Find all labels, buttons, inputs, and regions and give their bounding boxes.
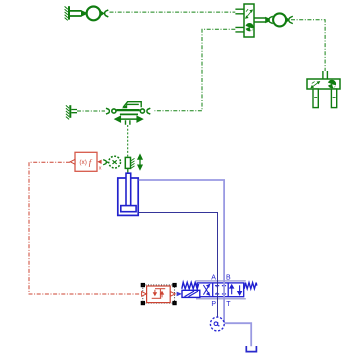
sensor stub to rod (127, 168, 129, 173)
claw right of engine (105, 10, 109, 17)
pump U1 variable arrow icon (246, 9, 253, 18)
cylinder piston (121, 206, 136, 212)
valve V1 right cell straight arrows (230, 285, 242, 295)
pump U2 body (307, 79, 340, 89)
pump U2 leg ticks (314, 97, 335, 99)
coupling funnel left of inertia J1 (265, 17, 270, 23)
coupling wedge right of engine (101, 11, 105, 17)
swashplate main bar (116, 109, 139, 111)
valve V1 body boxes (197, 283, 244, 297)
position sensor circle with x (109, 156, 121, 168)
flow gauge circle (210, 317, 224, 331)
pump U2 globe icon (328, 80, 336, 88)
swashplate flag wedge (122, 105, 128, 109)
sensor hatch marks (131, 158, 135, 168)
f(x) left output port arrow (70, 159, 75, 164)
valve V1 left spring (182, 282, 199, 288)
swashplate control SP left claw (106, 108, 109, 114)
position sensor claw (103, 160, 108, 165)
valve V1 proportional solenoid (182, 290, 200, 297)
fixed support W2 stub (71, 110, 77, 113)
swashplate right claw (147, 108, 150, 114)
pump U2 left leg (313, 89, 318, 108)
svg-text:T: T (226, 301, 231, 308)
swashplate flag (123, 102, 141, 108)
function block f(x) box (75, 152, 97, 171)
shaft of engine M1 (70, 11, 82, 16)
wire: inertia to right pump (291, 20, 325, 71)
wire: swashplate stem to position sensor (127, 125, 129, 157)
svg-text:A: A (211, 275, 216, 282)
svg-text:(x): (x) (79, 159, 86, 166)
coupling funnel left of engine (81, 10, 86, 17)
wire: pump lower port to swashplate control (155, 29, 236, 110)
svg-text:x: x (99, 166, 102, 172)
engine M1 circle (87, 6, 101, 20)
pump U1 globe icon (245, 23, 254, 31)
pump U1 lower left port stubs (235, 27, 244, 32)
svg-text:B: B (226, 275, 231, 282)
cylinder piston rod (126, 173, 131, 206)
pump U1 upper left port stubs (235, 9, 244, 14)
tank T1 (246, 346, 256, 352)
wire: cylinder bottom port to valve A / gauge (dark) (139, 213, 218, 317)
motion double arrow (138, 155, 142, 169)
wire: mechanical shaft line engine to pump (110, 11, 236, 13)
swashplate double arrow (115, 117, 142, 122)
sensor slider rect (125, 157, 130, 168)
valve driver right port arrow (170, 292, 175, 297)
pump U2 right leg (331, 89, 336, 108)
valve V1 port labels (211, 275, 231, 308)
svg-text:P: P (211, 301, 216, 308)
valve driver left port arrow (142, 292, 147, 297)
fixed support W1 (top left) (65, 6, 70, 20)
valve V1 left cell crossed arrows (203, 285, 209, 296)
claw right of inertia J1 (289, 16, 293, 23)
pump U2 (horizontal) top port stubs (323, 71, 328, 79)
claw left of inertia J1 (269, 16, 273, 23)
f(x) right input port arrow (97, 160, 101, 164)
valve V1 light rails (196, 281, 246, 299)
swashplate right joint circle (140, 109, 144, 113)
inertia J1 circle (273, 13, 286, 26)
hydraulic cylinder body (118, 178, 138, 215)
valve driver icon (ramp limiter) (152, 289, 166, 299)
valve driver selection border (143, 285, 175, 303)
swashplate second bar (120, 113, 138, 115)
valve driver block (147, 286, 171, 303)
swashplate left joint circle (112, 109, 116, 113)
pump U1 right shaft stubs (254, 18, 266, 22)
pump U2 variable arrow icon (311, 82, 320, 88)
wire: cylinder top port to valve B / tank (light) (139, 180, 252, 346)
coupling wedge right of inertia J1 (286, 17, 290, 23)
swashplate stem port (126, 120, 130, 125)
valve V1 right spring (244, 283, 257, 289)
wire: signal feedback f(x) to valve driver (29, 162, 141, 294)
valve driver selection handles (141, 283, 177, 305)
valve V1 middle cell closed ports (215, 286, 226, 294)
fixed support W2 (middle left) (66, 105, 71, 119)
pump U1 (variable displacement, vertical) body (244, 4, 254, 37)
valve V1 input arrow (blue) (177, 292, 182, 297)
wire: fixed support to swashplate (77, 110, 105, 112)
